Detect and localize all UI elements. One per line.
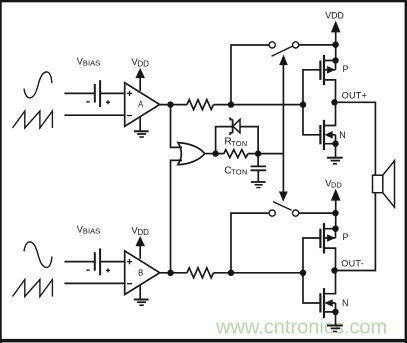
svg-text:DD: DD: [137, 60, 149, 69]
svg-text:B: B: [138, 268, 143, 277]
svg-text:BIAS: BIAS: [83, 227, 100, 236]
svg-text:OUT+: OUT+: [342, 90, 367, 100]
svg-text:P: P: [343, 232, 349, 242]
svg-text:DD: DD: [137, 228, 149, 237]
svg-text:www.cntronics.com: www.cntronics.com: [215, 316, 387, 338]
svg-text:P: P: [343, 64, 349, 74]
svg-text:OUT-: OUT-: [341, 258, 364, 268]
svg-text:BIAS: BIAS: [83, 59, 100, 68]
svg-text:DD: DD: [331, 180, 342, 189]
svg-text:N: N: [339, 130, 346, 140]
svg-text:TON: TON: [231, 139, 247, 148]
svg-text:A: A: [138, 100, 144, 109]
svg-text:N: N: [342, 298, 349, 308]
svg-text:TON: TON: [231, 168, 247, 177]
svg-text:VDD: VDD: [325, 10, 344, 20]
